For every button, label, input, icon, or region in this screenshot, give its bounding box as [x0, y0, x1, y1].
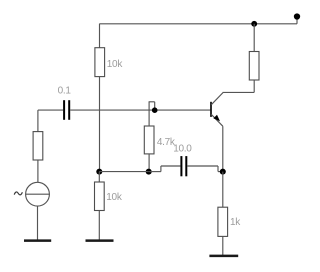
capacitor C1 0.1 (coupling)	[63, 100, 70, 120]
ground: below source	[24, 239, 51, 242]
resistor R4 (collector load, unlabeled)	[249, 52, 259, 81]
emitter diagonal	[211, 114, 223, 126]
wire: emitter node down to R5	[222, 172, 224, 208]
wire: Rs bottom to source top	[37, 160, 39, 182]
wire: R5 bottom to ground	[222, 236, 224, 255]
label: AC tilde next to source	[14, 192, 22, 195]
wire: bias node down to R2	[98, 172, 100, 182]
value label 10k for R1	[107, 59, 124, 70]
resistor Rs (source impedance, unlabeled)	[33, 132, 43, 160]
wire: signal-source branch corner, vertical down from base line	[37, 110, 39, 132]
value label 10.0 for C2	[173, 144, 192, 155]
wire: rail down to R1 top	[99, 24, 101, 48]
resistor R1 10k (upper bias)	[95, 48, 105, 77]
wire: stub up to output terminal	[296, 17, 298, 24]
node: junction on rail above collector resistor	[251, 21, 257, 27]
wire: R2 bottom to ground	[98, 211, 100, 241]
emitter arrow	[213, 115, 220, 122]
svg-text:1k: 1k	[230, 217, 241, 228]
wire: R4 top to rail junction	[253, 24, 255, 52]
wire: source bottom to ground	[37, 206, 39, 240]
terminal: output post (filled dot)	[294, 13, 300, 19]
svg-text:10.0: 10.0	[173, 144, 192, 155]
wire: R3 top lead hop over base line (up, right, down)	[149, 102, 155, 126]
value label 1k for R5	[230, 217, 241, 228]
value label 4.7k for R3	[157, 137, 176, 148]
wire: base line from C1 to transistor base (crosses divider wire, no dot)	[70, 109, 210, 111]
capacitor C2 10.0 (bypass)	[180, 156, 187, 176]
node: R3 hop connects to base line (dot)	[152, 107, 158, 113]
wire: R3 bottom lead to emitter node line	[148, 154, 150, 172]
wire: emitter down to emitter node	[222, 126, 224, 171]
value label 10k for R2	[106, 192, 123, 203]
svg-text:0.1: 0.1	[58, 85, 72, 96]
node: junction at R3 bottom (dot)	[146, 169, 152, 175]
resistor R2 10k (lower bias)	[95, 182, 105, 211]
collector diagonal	[211, 92, 223, 104]
svg-text:10k: 10k	[106, 192, 123, 203]
wire: top supply rail	[99, 23, 297, 25]
wire: bias node to R3-bottom node	[99, 171, 148, 173]
ground: below R2	[86, 239, 114, 242]
node: bias divider junction (dot)	[96, 169, 102, 175]
wire: base line left segment (source corner to C1)	[38, 109, 63, 111]
wire: collector up-right to collector resistor	[223, 80, 255, 92]
ground: below R5	[209, 255, 238, 258]
transistor Q1 (NPN)	[211, 92, 223, 126]
value label 0.1 for C1	[58, 85, 72, 96]
wire: C2 right plate to emitter node with step down	[187, 166, 223, 172]
wire: R3-bottom node toward C2 with step up	[149, 166, 181, 172]
wire: R1 bottom down through base-wire crossing to bias node	[99, 77, 101, 172]
svg-text:10k: 10k	[107, 59, 124, 70]
resistor R3 4.7k (feedback) body	[144, 126, 154, 154]
source V1: AC signal source circle	[26, 182, 50, 206]
base bar	[210, 102, 212, 117]
node: emitter junction (dot)	[220, 169, 226, 175]
resistor R5 1k (emitter)	[218, 207, 228, 236]
